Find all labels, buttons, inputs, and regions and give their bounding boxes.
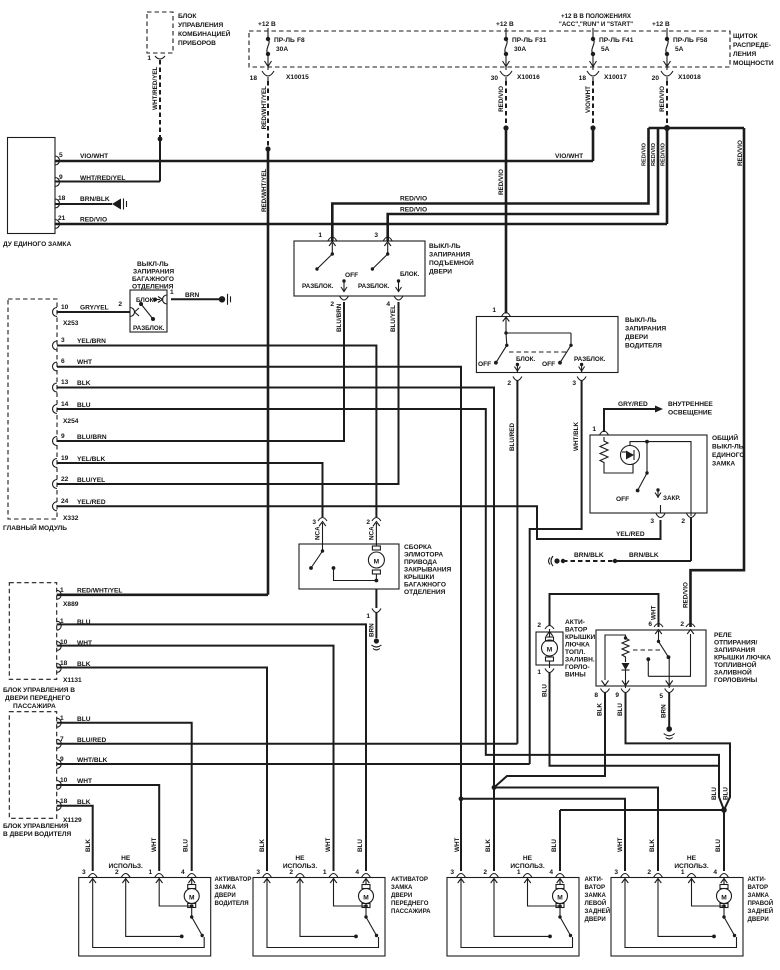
svg-text:АКТИ-: АКТИ- [565, 619, 585, 626]
svg-text:ИСПОЛЬЗ.: ИСПОЛЬЗ. [283, 863, 318, 870]
svg-text:WHT: WHT [151, 838, 158, 852]
svg-text:BLU: BLU [183, 839, 190, 852]
svg-text:BLU: BLU [617, 703, 624, 716]
svg-text:БЛОК.: БЛОК. [516, 356, 536, 363]
svg-text:ЗАДНЕЙ: ЗАДНЕЙ [748, 907, 774, 915]
svg-text:ПАССАЖИРА: ПАССАЖИРА [391, 908, 431, 915]
svg-text:4: 4 [355, 869, 359, 876]
svg-text:BLU/RED: BLU/RED [509, 423, 516, 451]
svg-text:M: M [189, 895, 195, 902]
svg-text:BLU: BLU [551, 839, 558, 852]
svg-text:КРЫШКИ: КРЫШКИ [404, 574, 435, 581]
svg-text:БАГАЖНОГО: БАГАЖНОГО [132, 276, 174, 283]
svg-text:2: 2 [118, 301, 122, 308]
svg-text:ПР-ЛЬ: ПР-ЛЬ [673, 37, 694, 44]
svg-text:BLK: BLK [597, 703, 604, 716]
svg-text:M: M [363, 895, 369, 902]
svg-text:GRY/RED: GRY/RED [618, 401, 648, 408]
svg-text:BLU: BLU [711, 787, 718, 800]
svg-text:OFF: OFF [542, 361, 555, 368]
svg-text:M: M [721, 895, 727, 902]
svg-text:4: 4 [549, 869, 553, 876]
svg-text:M: M [547, 647, 553, 654]
svg-text:ВИНЫ: ВИНЫ [565, 672, 586, 679]
svg-text:1: 1 [318, 232, 322, 239]
svg-text:YEL/RED: YEL/RED [77, 499, 106, 506]
svg-text:НЕ: НЕ [523, 855, 533, 862]
svg-text:ТОПЛИВНОЙ: ТОПЛИВНОЙ [714, 660, 757, 669]
svg-text:3: 3 [256, 869, 260, 876]
svg-text:МОЩНОСТИ: МОЩНОСТИ [733, 60, 774, 67]
svg-text:ДВЕРИ: ДВЕРИ [215, 892, 236, 899]
svg-text:КОМБИНАЦИЕЙ: КОМБИНАЦИЕЙ [178, 29, 231, 38]
svg-text:21: 21 [58, 215, 66, 222]
svg-text:БЛОК УПРАВЛЕНИЯ: БЛОК УПРАВЛЕНИЯ [3, 823, 69, 830]
svg-text:1: 1 [149, 869, 153, 876]
svg-text:ЗАКРЫВАНИЯ: ЗАКРЫВАНИЯ [404, 567, 451, 574]
svg-text:ВЫКЛ-ЛЬ: ВЫКЛ-ЛЬ [429, 243, 461, 250]
svg-text:F41: F41 [622, 37, 634, 44]
svg-text:BLK: BLK [77, 380, 91, 387]
svg-text:BRN/BLK: BRN/BLK [574, 552, 604, 559]
svg-text:YEL/BRN: YEL/BRN [77, 338, 106, 345]
svg-text:ЭЛ/МОТОРА: ЭЛ/МОТОРА [404, 552, 443, 559]
svg-text:ДВЕРИ: ДВЕРИ [748, 916, 769, 923]
svg-text:РАЗБЛОК.: РАЗБЛОК. [574, 356, 606, 363]
svg-text:+12 В В ПОЛОЖЕНИЯХ: +12 В В ПОЛОЖЕНИЯХ [561, 13, 632, 20]
svg-text:BLU/BRN: BLU/BRN [77, 434, 107, 441]
svg-text:BLK: BLK [85, 839, 92, 852]
svg-text:1: 1 [147, 55, 151, 62]
svg-text:РАЗБЛОК.: РАЗБЛОК. [133, 325, 165, 332]
svg-text:РАСПРЕДЕ-: РАСПРЕДЕ- [733, 42, 771, 49]
svg-text:10: 10 [60, 777, 68, 784]
svg-text:2: 2 [681, 518, 685, 525]
svg-text:ДВЕРИ: ДВЕРИ [391, 892, 412, 899]
svg-text:НЕ: НЕ [687, 855, 697, 862]
svg-text:M: M [557, 895, 563, 902]
svg-text:ДВЕРИ: ДВЕРИ [625, 334, 648, 341]
svg-text:НЕ: НЕ [121, 855, 131, 862]
svg-text:BRN/BLK: BRN/BLK [629, 552, 659, 559]
svg-text:3: 3 [650, 518, 654, 525]
svg-text:F31: F31 [535, 37, 547, 44]
svg-text:ВАТОР: ВАТОР [585, 884, 606, 891]
svg-text:4: 4 [181, 869, 185, 876]
svg-text:18: 18 [250, 75, 258, 82]
svg-text:X10015: X10015 [286, 74, 309, 81]
svg-text:ГОРЛОВИНЫ: ГОРЛОВИНЫ [714, 677, 758, 684]
svg-text:2: 2 [483, 869, 487, 876]
svg-text:БЛОК.: БЛОК. [400, 271, 420, 278]
svg-text:ДУ ЕДИНОГО ЗАМКА: ДУ ЕДИНОГО ЗАМКА [3, 241, 71, 248]
svg-text:BLK: BLK [649, 839, 656, 852]
svg-text:1: 1 [60, 587, 64, 594]
svg-text:VIO/WHT: VIO/WHT [555, 153, 583, 160]
svg-text:ГЛАВНЫЙ МОДУЛЬ: ГЛАВНЫЙ МОДУЛЬ [3, 523, 67, 532]
svg-text:ВОДИТЕЛЯ: ВОДИТЕЛЯ [625, 343, 662, 350]
svg-text:АКТИ-: АКТИ- [585, 876, 603, 883]
svg-text:ИСПОЛЬЗ.: ИСПОЛЬЗ. [109, 863, 144, 870]
svg-text:ВОДИТЕЛЯ: ВОДИТЕЛЯ [215, 900, 249, 907]
svg-text:ЗАПИРАНИЯ: ЗАПИРАНИЯ [714, 647, 755, 654]
svg-text:BLU: BLU [357, 839, 364, 852]
svg-text:WHT: WHT [617, 838, 624, 852]
svg-text:1: 1 [681, 869, 685, 876]
svg-text:4: 4 [713, 869, 717, 876]
svg-text:ЗАМКА: ЗАМКА [712, 461, 735, 468]
svg-text:9: 9 [60, 756, 64, 763]
svg-text:"ACC","RUN" И "START": "ACC","RUN" И "START" [559, 21, 633, 28]
svg-text:YEL/BLK: YEL/BLK [77, 456, 105, 463]
svg-text:BLU: BLU [542, 684, 549, 697]
svg-text:ЩИТОК: ЩИТОК [733, 33, 758, 40]
svg-text:ДВЕРИ: ДВЕРИ [585, 916, 606, 923]
svg-text:BLU/YEL: BLU/YEL [390, 305, 397, 332]
svg-text:ПР-ЛЬ: ПР-ЛЬ [274, 37, 295, 44]
svg-text:ЗАМКА: ЗАМКА [585, 892, 607, 899]
svg-text:WHT/RED/YEL: WHT/RED/YEL [152, 66, 159, 110]
svg-text:RED/VIO: RED/VIO [498, 86, 505, 112]
svg-text:ПЕРЕДНЕГО: ПЕРЕДНЕГО [391, 900, 429, 907]
svg-text:ПРАВОЙ: ПРАВОЙ [748, 899, 774, 907]
svg-text:RED/VIO: RED/VIO [400, 196, 427, 203]
svg-text:АКТИВАТОР: АКТИВАТОР [391, 876, 428, 883]
svg-text:ОБЩИЙ: ОБЩИЙ [712, 433, 738, 442]
svg-text:ВЫКЛ-ЛЬ: ВЫКЛ-ЛЬ [137, 261, 169, 268]
svg-text:VIO/WHT: VIO/WHT [585, 86, 592, 113]
svg-text:5A: 5A [601, 46, 610, 53]
svg-text:10: 10 [61, 304, 69, 311]
svg-text:СБОРКА: СБОРКА [404, 544, 432, 551]
svg-text:ЛЕВОЙ: ЛЕВОЙ [585, 899, 607, 907]
svg-text:ГОРЛО-: ГОРЛО- [565, 664, 590, 671]
svg-text:3: 3 [374, 232, 378, 239]
svg-text:+12 В: +12 В [258, 21, 276, 28]
svg-text:ОТПИРАНИЯ/: ОТПИРАНИЯ/ [714, 640, 757, 647]
svg-text:BLU/BRN: BLU/BRN [336, 303, 343, 332]
svg-text:OFF: OFF [345, 272, 358, 279]
svg-text:WHT: WHT [454, 838, 461, 852]
svg-text:ЗАЛИВН.: ЗАЛИВН. [565, 657, 595, 664]
svg-text:F58: F58 [696, 37, 708, 44]
svg-text:RED/VIO: RED/VIO [498, 169, 505, 195]
svg-text:БЛОК УПРАВЛЕНИЯ В: БЛОК УПРАВЛЕНИЯ В [3, 687, 75, 694]
svg-text:30A: 30A [514, 46, 526, 53]
svg-text:ВАТОР: ВАТОР [748, 884, 769, 891]
svg-text:ЕДИНОГО: ЕДИНОГО [712, 452, 745, 459]
svg-text:1: 1 [592, 426, 596, 433]
svg-text:1: 1 [517, 869, 521, 876]
svg-text:1: 1 [366, 613, 370, 620]
svg-text:1: 1 [323, 869, 327, 876]
svg-text:X10016: X10016 [517, 74, 540, 81]
svg-text:2: 2 [330, 301, 334, 308]
svg-text:WHT: WHT [77, 359, 92, 366]
svg-text:1: 1 [60, 715, 64, 722]
svg-text:2: 2 [647, 869, 651, 876]
svg-text:RED/WHT/YEL: RED/WHT/YEL [77, 588, 122, 595]
svg-text:ДВЕРИ: ДВЕРИ [429, 269, 452, 276]
svg-text:ЗАКР.: ЗАКР. [663, 495, 681, 502]
svg-text:22: 22 [61, 476, 69, 483]
svg-text:БЛОК: БЛОК [178, 13, 197, 20]
svg-text:2: 2 [289, 869, 293, 876]
svg-text:WHT: WHT [651, 606, 658, 620]
svg-text:РАЗБЛОК.: РАЗБЛОК. [302, 283, 334, 290]
svg-text:5: 5 [659, 693, 663, 700]
svg-text:BLK: BLK [485, 839, 492, 852]
svg-text:ПР-ЛЬ: ПР-ЛЬ [599, 37, 620, 44]
svg-text:2: 2 [115, 869, 119, 876]
svg-text:7: 7 [60, 736, 64, 743]
svg-text:РЕЛЕ: РЕЛЕ [714, 632, 732, 639]
svg-text:ВАТОР: ВАТОР [565, 627, 588, 634]
svg-text:ЗАДНЕЙ: ЗАДНЕЙ [585, 907, 611, 915]
svg-text:WHT: WHT [325, 838, 332, 852]
svg-text:КРЫШКИ ЛЮЧКА: КРЫШКИ ЛЮЧКА [714, 655, 771, 662]
svg-text:20: 20 [652, 75, 660, 82]
svg-text:ВНУТРЕННЕЕ: ВНУТРЕННЕЕ [668, 401, 713, 408]
svg-text:ПР-ЛЬ: ПР-ЛЬ [512, 37, 533, 44]
svg-text:30A: 30A [276, 46, 288, 53]
svg-text:ДВЕРИ ПЕРЕДНЕГО: ДВЕРИ ПЕРЕДНЕГО [5, 695, 70, 702]
svg-text:1: 1 [170, 289, 174, 296]
svg-text:BLU/YEL: BLU/YEL [77, 477, 105, 484]
svg-text:F8: F8 [297, 37, 305, 44]
svg-text:X10017: X10017 [604, 74, 627, 81]
svg-text:2: 2 [680, 621, 684, 628]
svg-text:YEL/RED: YEL/RED [616, 531, 645, 538]
svg-text:БАГАЖНОГО: БАГАЖНОГО [404, 582, 446, 589]
svg-text:НЕ: НЕ [295, 855, 305, 862]
svg-text:2: 2 [366, 519, 370, 526]
svg-text:VIO/WHT: VIO/WHT [80, 153, 108, 160]
svg-text:18: 18 [579, 75, 587, 82]
svg-text:BLU: BLU [715, 839, 722, 852]
svg-text:19: 19 [61, 455, 69, 462]
svg-text:В ДВЕРИ ВОДИТЕЛЯ: В ДВЕРИ ВОДИТЕЛЯ [3, 831, 72, 838]
svg-text:ПАССАЖИРА: ПАССАЖИРА [13, 703, 56, 710]
svg-text:ИСПОЛЬЗ.: ИСПОЛЬЗ. [674, 863, 709, 870]
svg-text:9: 9 [59, 174, 63, 181]
svg-text:30: 30 [491, 75, 499, 82]
svg-text:ПОДЪЕМНОЙ: ПОДЪЕМНОЙ [429, 258, 474, 267]
svg-text:КРЫШКИ: КРЫШКИ [565, 634, 596, 641]
svg-text:РАЗБЛОК.: РАЗБЛОК. [358, 283, 390, 290]
svg-text:14: 14 [61, 401, 69, 408]
svg-text:RED/VIO: RED/VIO [659, 86, 666, 112]
svg-text:2: 2 [507, 380, 511, 387]
svg-text:X254: X254 [63, 418, 79, 425]
svg-text:1: 1 [492, 307, 496, 314]
svg-text:ОСВЕЩЕНИЕ: ОСВЕЩЕНИЕ [668, 410, 713, 417]
svg-text:ВЫКЛ-ЛЬ: ВЫКЛ-ЛЬ [712, 444, 744, 451]
svg-text:BLU: BLU [77, 402, 91, 409]
svg-text:BRN: BRN [661, 704, 668, 718]
svg-text:BLK: BLK [259, 839, 266, 852]
svg-text:RED/VIO: RED/VIO [651, 142, 657, 166]
svg-text:X332: X332 [63, 515, 79, 522]
svg-text:GRY/YEL: GRY/YEL [80, 305, 109, 312]
svg-text:УПРАВЛЕНИЯ: УПРАВЛЕНИЯ [178, 22, 224, 29]
svg-text:RED/VIO: RED/VIO [400, 207, 427, 214]
svg-text:8: 8 [594, 692, 598, 699]
svg-text:ОТДЕЛЕНИЯ: ОТДЕЛЕНИЯ [404, 589, 446, 596]
svg-text:6: 6 [648, 621, 652, 628]
svg-text:ЗАПИРАНИЯ: ЗАПИРАНИЯ [625, 326, 666, 333]
svg-text:RED/VIO: RED/VIO [80, 217, 107, 224]
svg-text:13: 13 [61, 379, 69, 386]
svg-text:5A: 5A [675, 46, 684, 53]
svg-text:ЗАПИРАНИЯ: ЗАПИРАНИЯ [133, 269, 174, 276]
svg-text:BRN/BLK: BRN/BLK [80, 196, 110, 203]
svg-text:X889: X889 [63, 601, 79, 608]
svg-text:BLU: BLU [723, 787, 730, 800]
svg-text:OFF: OFF [478, 361, 491, 368]
svg-text:5: 5 [59, 152, 63, 159]
svg-text:X253: X253 [63, 320, 79, 327]
svg-text:ПРИВОДА: ПРИВОДА [404, 559, 437, 566]
svg-text:18: 18 [60, 660, 68, 667]
svg-text:NCA: NCA [315, 526, 322, 540]
svg-text:NCA: NCA [368, 526, 375, 540]
svg-text:1: 1 [537, 669, 541, 676]
svg-text:2: 2 [537, 622, 541, 629]
svg-text:WHT/BLK: WHT/BLK [77, 757, 108, 764]
svg-text:18: 18 [58, 195, 66, 202]
svg-text:ЗАМКА: ЗАМКА [748, 892, 770, 899]
svg-text:X1131: X1131 [63, 677, 82, 684]
svg-text:ЗАМКА: ЗАМКА [215, 884, 237, 891]
svg-text:3: 3 [572, 380, 576, 387]
svg-text:ЗАПИРАНИЯ: ЗАПИРАНИЯ [429, 252, 470, 259]
svg-text:+12 В: +12 В [496, 21, 514, 28]
svg-text:ИСПОЛЬЗ.: ИСПОЛЬЗ. [510, 863, 545, 870]
svg-text:BRN: BRN [185, 292, 200, 299]
svg-text:BRN: BRN [369, 623, 376, 637]
svg-text:3: 3 [82, 869, 86, 876]
svg-text:ЗАМКА: ЗАМКА [391, 884, 413, 891]
svg-text:9: 9 [615, 692, 619, 699]
svg-text:RED/WHT/YEL: RED/WHT/YEL [261, 86, 268, 130]
svg-text:24: 24 [61, 498, 69, 505]
svg-text:ЗАЛИВНОЙ: ЗАЛИВНОЙ [714, 668, 752, 677]
svg-text:OFF: OFF [616, 496, 629, 503]
svg-text:АКТИ-: АКТИ- [748, 876, 766, 883]
svg-text:БЛОК.: БЛОК. [136, 297, 156, 304]
svg-text:ВЫКЛ-ЛЬ: ВЫКЛ-ЛЬ [625, 317, 657, 324]
svg-text:3: 3 [450, 869, 454, 876]
svg-text:RED/VIO: RED/VIO [661, 142, 667, 166]
svg-text:WHT: WHT [77, 778, 92, 785]
svg-text:ЛЮЧКА: ЛЮЧКА [565, 642, 590, 649]
svg-text:X1129: X1129 [63, 817, 82, 824]
svg-text:3: 3 [312, 519, 316, 526]
svg-text:RED/VIO: RED/VIO [683, 582, 690, 608]
svg-text:X10018: X10018 [678, 74, 701, 81]
svg-text:ПРИБОРОВ: ПРИБОРОВ [178, 40, 216, 47]
svg-text:RED/VIO: RED/VIO [642, 142, 648, 166]
svg-text:АКТИВАТОР: АКТИВАТОР [215, 876, 252, 883]
svg-text:M: M [374, 559, 380, 566]
svg-text:6: 6 [61, 358, 65, 365]
svg-text:ЛЕНИЯ: ЛЕНИЯ [733, 51, 757, 58]
svg-text:3: 3 [614, 869, 618, 876]
svg-text:3: 3 [61, 337, 65, 344]
svg-text:+12 В: +12 В [652, 21, 670, 28]
svg-text:9: 9 [61, 433, 65, 440]
svg-text:ТОПЛ.: ТОПЛ. [565, 649, 585, 656]
svg-text:18: 18 [60, 798, 68, 805]
svg-text:WHT/BLK: WHT/BLK [573, 422, 580, 451]
